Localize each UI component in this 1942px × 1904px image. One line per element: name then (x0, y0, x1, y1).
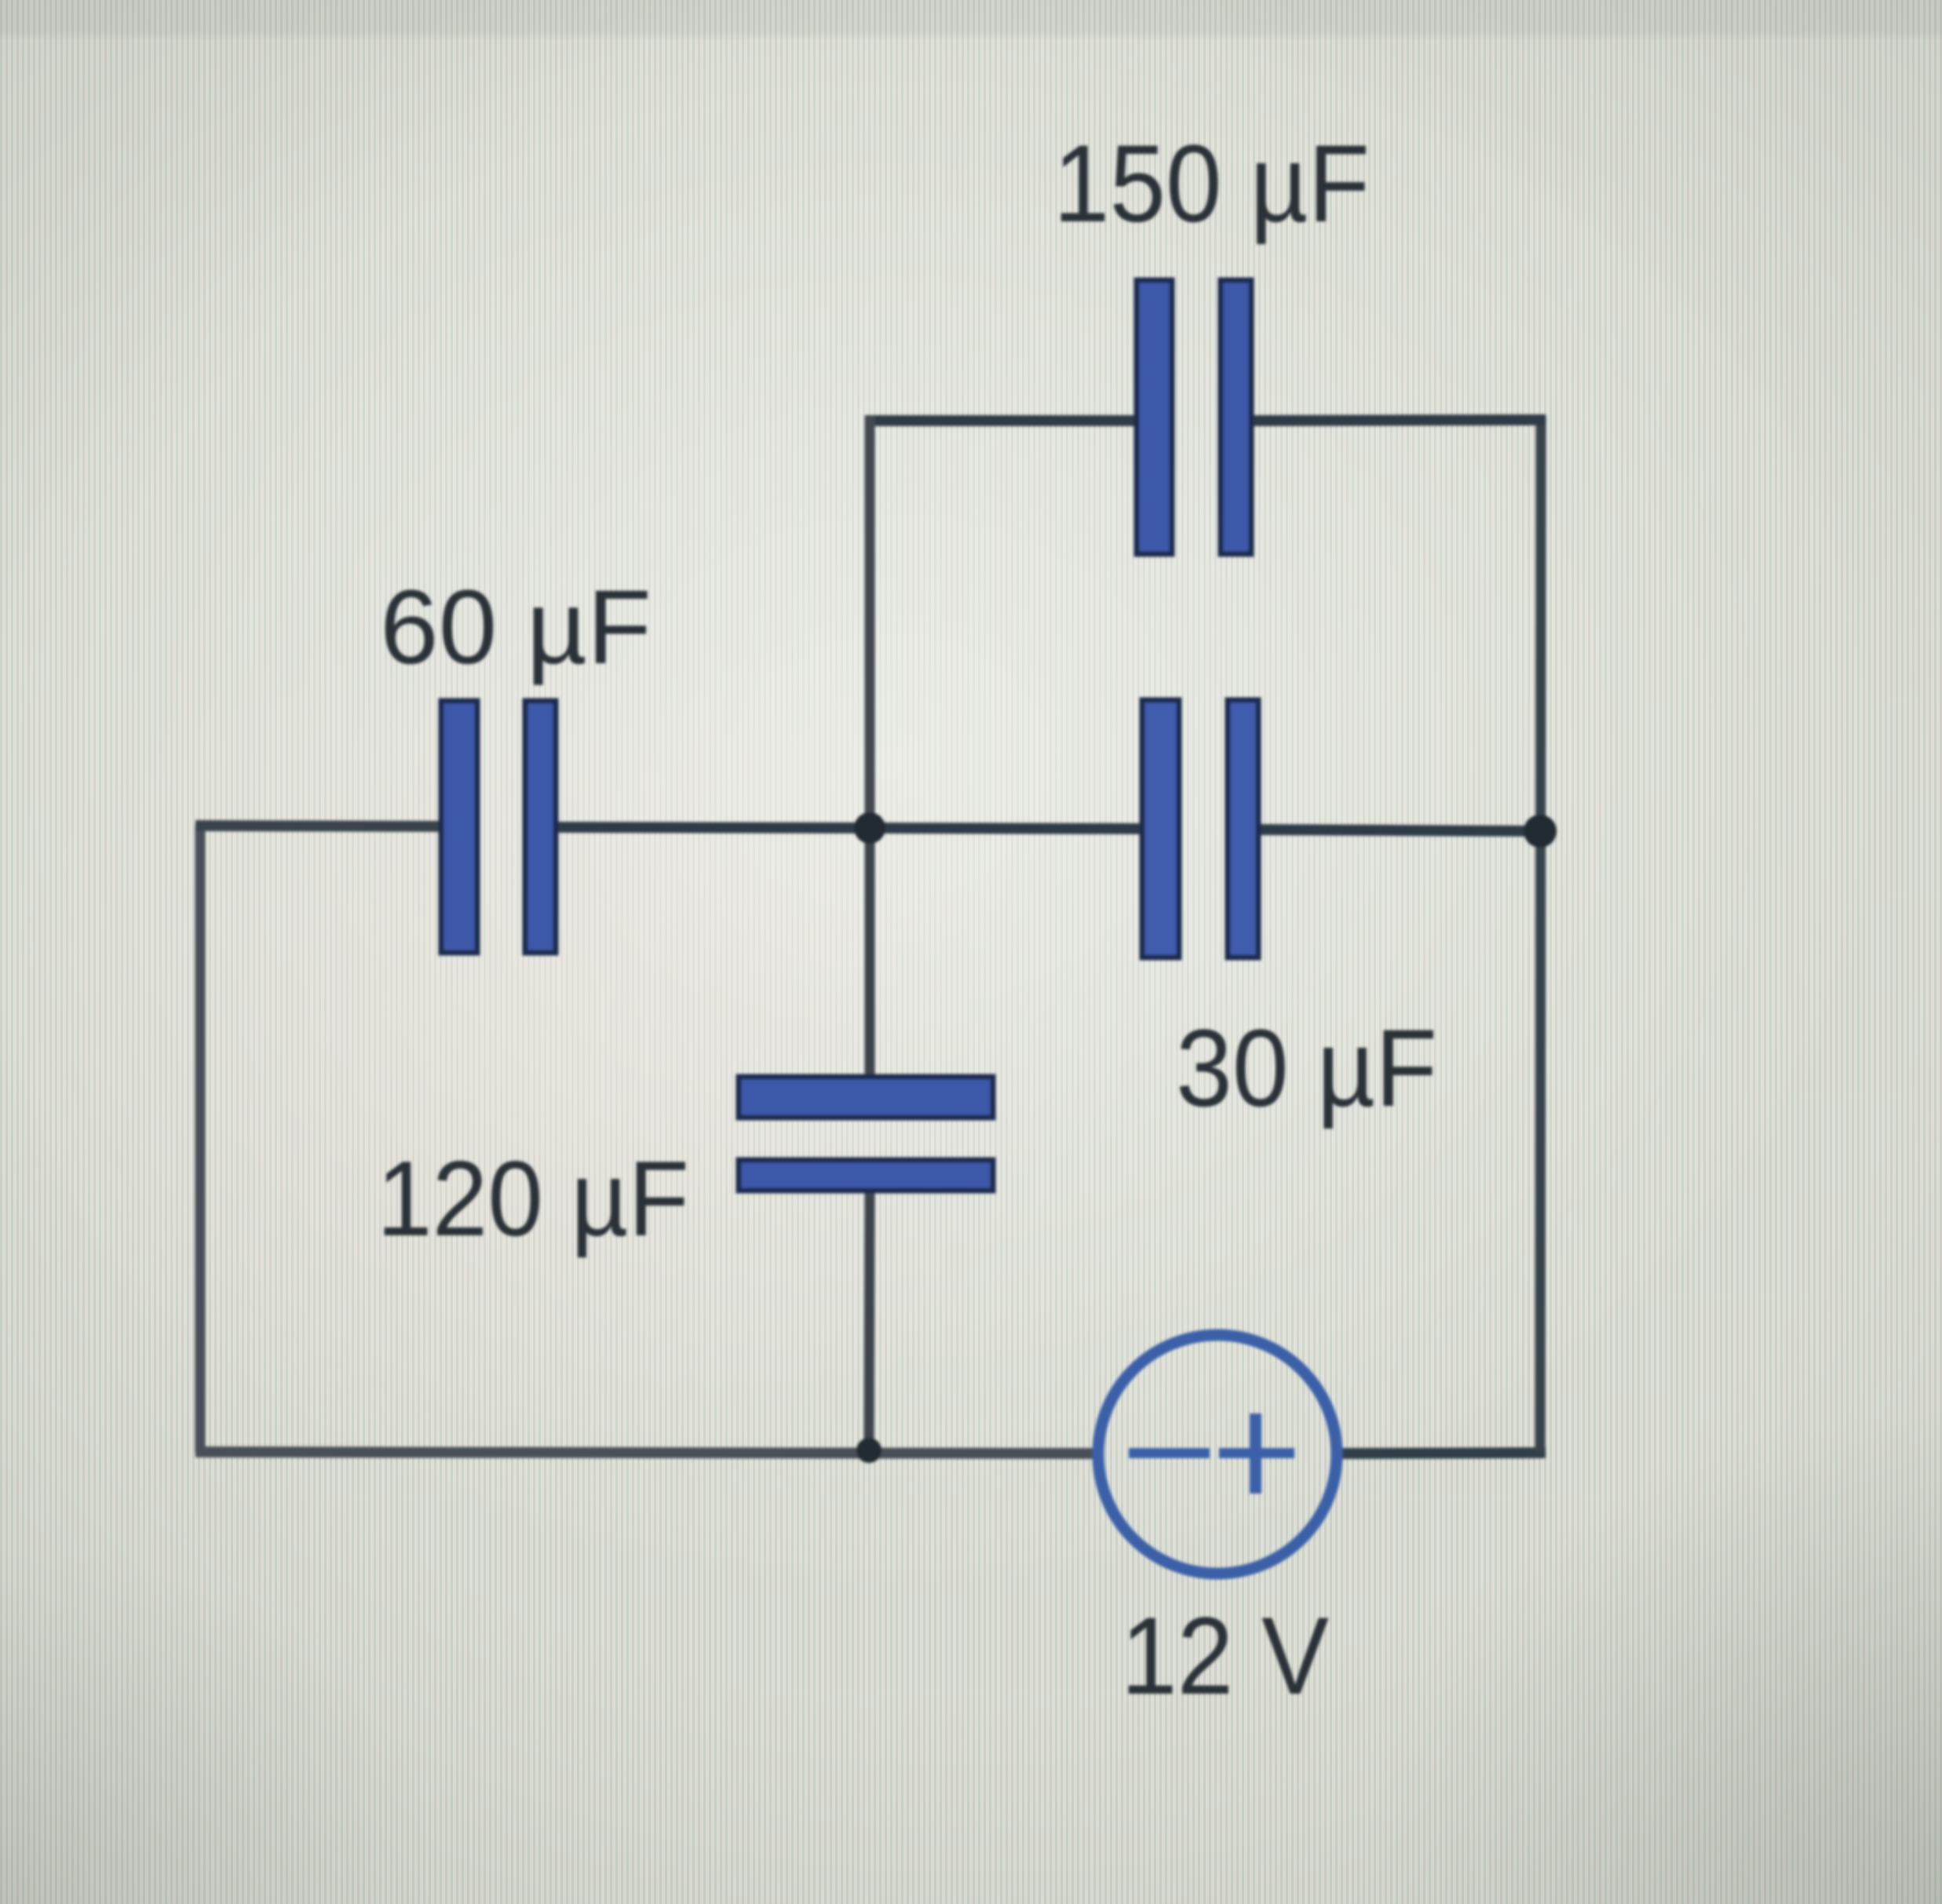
capacitor C4 120 uF - bottom plate (739, 1160, 993, 1191)
svg-text:60 µF: 60 µF (380, 569, 652, 686)
wire: left vertical (left branch) (195, 826, 206, 1453)
svg-text:12 V: 12 V (1121, 1594, 1329, 1717)
capacitor C4 120 uF - top plate (739, 1077, 993, 1118)
capacitor C3 30 uF - left plate (1142, 700, 1179, 957)
svg-text:30 µF: 30 µF (1176, 1006, 1437, 1129)
node: junction at bottom (bottom wire / middle branch) (856, 1438, 882, 1463)
wire: top branch right segment (1250, 420, 1546, 421)
voltage source V1 - minus sign (1129, 1448, 1210, 1458)
node: junction at middle (main wire / middle branch) (854, 812, 885, 844)
wire: main horizontal - C2 right plate to middle junction (554, 827, 870, 828)
capacitor C3 30 uF - right plate (1228, 700, 1258, 957)
svg-text:120 µF: 120 µF (377, 1139, 689, 1258)
capacitor C2 60 uF - right plate (525, 701, 556, 953)
capacitor C2 60 uF - left plate (441, 701, 477, 953)
svg-text:150 µF: 150 µF (1053, 122, 1370, 245)
wire: main horizontal - middle junction to C3 left plate (870, 828, 1144, 829)
wire: top branch left segment (865, 415, 1138, 426)
wire: main horizontal - C3 right plate to right junction (1257, 830, 1540, 831)
wire: middle vertical (junction to 120uF top plate) (865, 828, 875, 1078)
node: junction at right (main wire / right branch) (1524, 815, 1557, 848)
wire: middle vertical lower (120uF bottom plate to bottom wire) (869, 1189, 870, 1453)
wire: middle vertical upper (top corner to junction) (865, 415, 875, 828)
wire: right vertical (1540, 415, 1541, 1453)
wire: bottom left segment (195, 1452, 1093, 1454)
voltage source V1 - plus sign vertical bar (1250, 1413, 1261, 1494)
capacitor C1 150 uF - right plate (1221, 280, 1251, 554)
voltage source V1 12V - circle body (1098, 1335, 1337, 1574)
voltage source V1 - plus sign horizontal bar (1219, 1448, 1294, 1458)
capacitor C1 150 uF - left plate (1137, 280, 1172, 554)
wire: main horizontal - left end to C2 left plate (195, 826, 443, 826)
wire: bottom right segment (source to bottom-right corner) (1342, 1453, 1546, 1454)
